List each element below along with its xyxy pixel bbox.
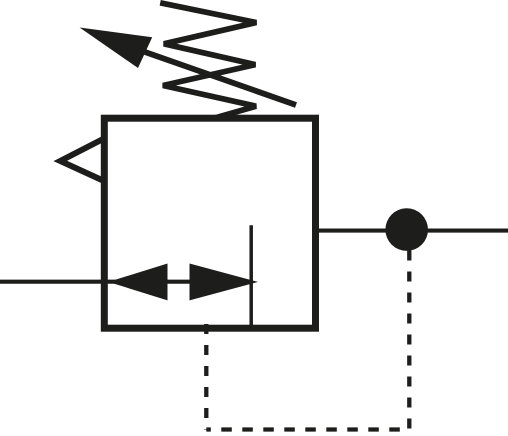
double arrow right head [190,264,259,301]
spring (adjustable pressure spring zigzag) [160,3,256,119]
node circle (outlet pressure tap) [385,208,428,251]
pilot dashed line left vertical segment [204,324,208,430]
pilot dashed line right vertical segment [407,251,411,430]
right port wire [315,229,508,233]
vent triangle (exhaust) [60,139,104,182]
left port wire [0,280,190,284]
adjustment arrow shaft [145,52,296,105]
regulator body box [104,118,315,328]
adjustment arrow head [80,28,153,69]
pilot dashed line bottom horizontal segment [206,427,409,431]
valve seat vertical line [249,225,253,328]
double arrow left head [108,264,167,301]
